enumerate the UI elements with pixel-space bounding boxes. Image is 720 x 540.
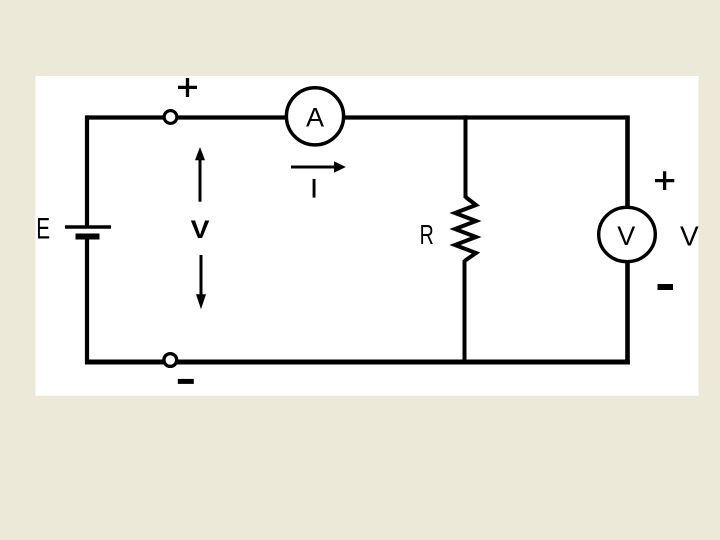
svg-text:V: V (680, 221, 699, 252)
voltmeter V circle (599, 207, 656, 261)
svg-text:V: V (191, 216, 210, 244)
svg-text:E: E (36, 213, 50, 245)
ammeter A circle (286, 88, 343, 145)
battery E: long plate (65, 225, 111, 229)
plus sign at voltmeter (655, 171, 674, 190)
resistor R zigzag (455, 197, 476, 261)
wire left upper (battery + to top terminal) (85, 115, 89, 226)
white drawing area (36, 76, 699, 396)
wire resistor branch lower (463, 260, 467, 365)
wire resistor branch upper (464, 115, 468, 198)
voltage arrow down (200, 255, 203, 295)
wire right lower (voltmeter to bottom wire) (625, 261, 630, 365)
svg-text:R: R (420, 220, 434, 251)
wire bottom (85, 360, 630, 365)
minus sign at bottom terminal (178, 379, 194, 384)
wire left lower (battery - to bottom wire) (85, 237, 89, 365)
svg-text:V: V (617, 221, 635, 251)
wire right upper (top wire to voltmeter) (625, 115, 630, 208)
current arrow I (291, 166, 335, 169)
terminal node bottom (open circle) (164, 354, 177, 367)
battery E: short plate (76, 234, 100, 240)
wire top (node + to node through A) (87, 115, 628, 119)
label I (313, 179, 316, 198)
minus sign at voltmeter (658, 284, 674, 290)
terminal node top (open circle) (164, 111, 177, 124)
voltage arrow up (199, 160, 202, 202)
plus sign at top terminal (178, 78, 197, 97)
svg-text:A: A (306, 102, 324, 132)
